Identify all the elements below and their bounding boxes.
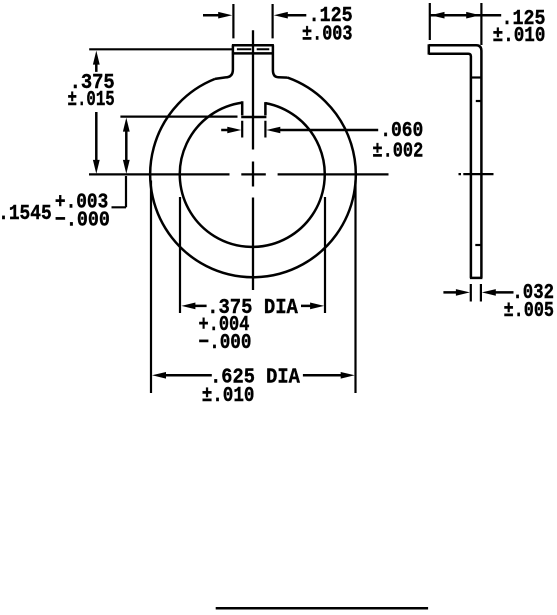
extension lines outer dia (151, 181, 356, 394)
extension lines .060 (242, 121, 265, 138)
outer circle (washer OD, front view) (150, 78, 356, 278)
label .375 DIA (199, 296, 298, 355)
horizontal centerline (89, 173, 389, 175)
svg-text:−.000: −.000 (55, 208, 110, 232)
svg-text:±.005: ±.005 (504, 299, 554, 323)
extension line .1545 top (120, 115, 237, 117)
tab right side with fillet (273, 45, 288, 77)
side view L-profile inner (429, 54, 471, 278)
dimension .060 (221, 127, 378, 134)
label .125 side (493, 7, 546, 48)
dimension .125 tab width (203, 12, 306, 19)
tab left side with fillet (215, 45, 233, 79)
side view tick hole top (476, 100, 482, 102)
tab bend line (232, 52, 274, 55)
label .060 (372, 119, 423, 164)
extension lines side .125 (430, 3, 482, 45)
tab bend dashed centerline (237, 48, 269, 50)
label .625 DIA (202, 365, 300, 408)
label .125 tab (302, 4, 353, 47)
svg-text:−.000: −.000 (199, 331, 252, 355)
svg-text:±.003: ±.003 (302, 23, 353, 47)
extension lines inner dia (180, 197, 325, 313)
dimension .1545 vertical (123, 118, 130, 174)
extension lines tab width (233, 4, 272, 38)
tab band top edge (232, 44, 274, 47)
footer rule (216, 607, 428, 610)
dimension .375 vertical (93, 51, 100, 174)
side view tick hole bottom (475, 244, 481, 246)
extension lines .032 (471, 284, 481, 302)
dimension .375 DIA (181, 303, 324, 310)
label .032 (504, 281, 554, 323)
svg-text:±.010: ±.010 (202, 384, 255, 408)
side view centerline (459, 173, 494, 175)
svg-text:±.015: ±.015 (68, 88, 115, 112)
svg-text:±.002: ±.002 (372, 140, 423, 164)
inner circle (washer ID, front view) (180, 103, 325, 247)
extension line .375 top (89, 48, 232, 50)
keyway notch (241, 101, 266, 117)
svg-text:±.010: ±.010 (493, 24, 546, 48)
side view tick shoulder (471, 76, 482, 78)
side view bottom cap (470, 277, 483, 280)
side view left end cap (428, 44, 431, 54)
side view L-profile outer (429, 45, 482, 278)
label .1545 (0, 191, 110, 233)
dimension .032 (443, 289, 513, 296)
dimension .625 DIA (152, 372, 355, 379)
label .375 (68, 71, 115, 112)
leader .1545 (112, 176, 127, 207)
dimension side .125 (430, 12, 501, 19)
svg-text:.1545: .1545 (0, 202, 52, 226)
vertical centerline (252, 30, 254, 290)
